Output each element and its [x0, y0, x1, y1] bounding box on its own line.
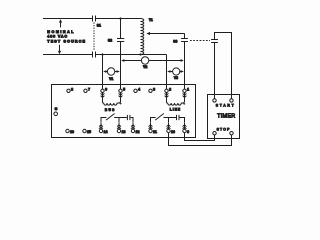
- svg-text:10: 10: [171, 130, 175, 134]
- arrow chevrons above terminal 9: [183, 123, 187, 129]
- timer terminal stop right: [230, 132, 233, 135]
- svg-text:S3: S3: [173, 39, 177, 43]
- svg-text:TIMER: TIMER: [217, 114, 235, 120]
- terminal 8: [67, 89, 70, 92]
- terminal 11: [149, 129, 152, 132]
- terminal 15: [83, 129, 86, 132]
- terminal 9: [183, 129, 186, 132]
- arrow chevrons below terminal 2: [165, 93, 169, 99]
- timer terminal start left: [213, 99, 216, 102]
- arrow chevrons above terminal 13: [117, 123, 121, 129]
- svg-text:4: 4: [138, 87, 140, 91]
- svg-text:BUS: BUS: [105, 108, 116, 112]
- svg-text:12: 12: [136, 130, 140, 134]
- svg-text:TEST SOURCE: TEST SOURCE: [47, 39, 86, 43]
- polarity + LINE: [183, 103, 185, 105]
- wire right contact network: [151, 118, 185, 123]
- terminal 1: [183, 89, 186, 92]
- svg-text:11: 11: [153, 130, 157, 134]
- svg-text:16: 16: [70, 130, 74, 134]
- svg-text:2: 2: [169, 87, 171, 91]
- transformer T1 winding: [141, 19, 144, 55]
- switch S1 bottom pole: [93, 52, 96, 58]
- terminal G: [54, 112, 58, 116]
- switch S2 with wire to terminal 5: [120, 19, 122, 90]
- arrow chevrons below terminal 6: [101, 93, 105, 99]
- arrow chevrons above terminal 14: [99, 123, 103, 129]
- svg-text:6: 6: [105, 87, 107, 91]
- svg-text:S2: S2: [108, 39, 112, 43]
- timer terminal stop left: [213, 132, 216, 135]
- svg-text:V2: V2: [143, 65, 147, 69]
- contact NO plates (13-12): [127, 115, 129, 120]
- meter V1: [107, 68, 114, 75]
- contact NC slash (11-10): [155, 114, 164, 121]
- switch S1 top pole: [93, 16, 96, 22]
- arrow chevrons above terminal 11: [149, 123, 153, 129]
- wire bottom rail of test source: [43, 54, 167, 56]
- arrow chevrons below terminal 5: [119, 93, 123, 99]
- svg-text:STOP: STOP: [217, 127, 231, 131]
- terminal 12: [131, 129, 134, 132]
- arrow chevrons below terminal 1: [183, 93, 187, 99]
- relay box: [52, 85, 196, 138]
- svg-text:480 VAC: 480 VAC: [47, 34, 68, 38]
- meter V3: [173, 68, 180, 75]
- terminal 2: [165, 89, 168, 92]
- switch S3 with wire from wiper to terminal 1: [184, 34, 186, 90]
- node junction dot S2 tap on top rail: [119, 17, 121, 19]
- coil BUS: [103, 98, 121, 105]
- wire timer start loop: [215, 33, 232, 99]
- svg-text:NOMINAL: NOMINAL: [47, 30, 75, 34]
- wire terminal 2 drop: [166, 55, 168, 90]
- svg-text:V3: V3: [174, 76, 178, 80]
- contact NO plates (10-9): [177, 115, 180, 120]
- svg-text:14: 14: [104, 130, 108, 134]
- svg-text:1: 1: [187, 87, 189, 91]
- terminal 10: [167, 129, 170, 132]
- svg-text:T1: T1: [149, 18, 153, 22]
- node junction dot T1 bottom: [139, 53, 141, 55]
- terminal 13: [117, 129, 120, 132]
- timer box: [208, 95, 240, 139]
- wire timer left lead: [214, 43, 216, 99]
- wire left contact network: [101, 118, 133, 123]
- svg-text:V1: V1: [109, 77, 113, 81]
- timer terminal start right: [230, 99, 233, 102]
- polarity + BUS: [119, 102, 121, 104]
- arrow down to bottom rail: [59, 45, 61, 52]
- arrow chevrons above terminal 10: [167, 123, 171, 129]
- wire top rail of test source: [43, 18, 141, 20]
- terminal 4: [134, 89, 137, 92]
- terminal 7: [84, 89, 87, 92]
- svg-text:13: 13: [122, 130, 126, 134]
- svg-text:S1: S1: [97, 23, 101, 27]
- contact NC slash (14-13): [106, 114, 115, 121]
- wire terminal 6 drop: [102, 55, 104, 90]
- wire terminal 9 to timer stop left: [185, 133, 215, 141]
- wire terminal 10 to timer stop right: [169, 133, 232, 146]
- terminal 3: [149, 89, 152, 92]
- meter V2: [141, 57, 148, 64]
- svg-text:7: 7: [88, 87, 90, 91]
- svg-text:LINE: LINE: [170, 108, 181, 112]
- svg-text:8: 8: [71, 87, 73, 91]
- coil LINE: [167, 98, 185, 105]
- svg-text:3: 3: [153, 87, 155, 91]
- wire T1 wiper with arrow: [149, 33, 185, 35]
- svg-text:START: START: [216, 103, 236, 107]
- svg-text:5: 5: [123, 87, 125, 91]
- svg-text:9: 9: [187, 130, 189, 134]
- wire S3 dashed linkage to timer contact: [190, 40, 210, 42]
- arrow up to top rail: [60, 21, 62, 27]
- svg-text:G: G: [55, 107, 58, 111]
- terminal 16: [66, 129, 69, 132]
- switch S3 second pole (timer start contact): [211, 40, 218, 43]
- terminal 6: [101, 89, 104, 92]
- arrow chevrons above terminal 12: [131, 123, 135, 129]
- svg-text:15: 15: [87, 130, 91, 134]
- node junction dot terminal-6 tap: [101, 53, 103, 55]
- wire S1 dashed linkage: [93, 22, 95, 51]
- terminal 14: [99, 129, 102, 132]
- terminal 5: [119, 89, 122, 92]
- label NOMINAL 480 VAC TEST SOURCE: [47, 30, 86, 43]
